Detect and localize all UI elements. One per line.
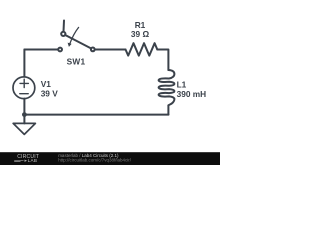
switch SW1 lever — [65, 35, 91, 48]
wire stub above switch (open throw) — [63, 21, 66, 32]
wire junction to ground — [23, 115, 25, 124]
switch SW1 left terminal — [58, 48, 62, 52]
wire top horizontal to switch — [24, 49, 58, 51]
voltage source V1 minus sign — [20, 93, 28, 95]
svg-text:SW1: SW1 — [67, 56, 86, 66]
inductor L1 coil — [159, 70, 175, 105]
ground symbol — [13, 123, 35, 134]
switch SW1 right terminal — [91, 48, 95, 52]
switch SW1 — [58, 21, 95, 52]
wire inductor to bottom — [167, 105, 169, 114]
voltage source V1 circle — [13, 77, 35, 99]
voltage source V1 plus sign — [20, 79, 28, 87]
svg-text:39 Ω: 39 Ω — [131, 29, 150, 39]
footer bar — [0, 152, 220, 165]
wire left rail top (V1 top to corner) — [23, 50, 25, 78]
switch SW1 action arrow — [70, 27, 79, 43]
wire resistor to right corner — [157, 50, 168, 71]
footer CircuitLab logo — [14, 154, 39, 163]
node junction dot — [22, 112, 27, 117]
svg-text:LAB: LAB — [28, 158, 38, 163]
resistor R1 — [126, 43, 158, 55]
svg-text:http://circuitlab.com/c/7vq38f: http://circuitlab.com/c/7vq38f/lab4cir/ — [58, 157, 132, 162]
wire switch to resistor — [95, 49, 126, 51]
switch SW1 top throw terminal — [61, 32, 65, 36]
wire bottom horizontal — [24, 114, 168, 116]
svg-text:390 mH: 390 mH — [177, 89, 207, 99]
svg-text:39 V: 39 V — [41, 88, 59, 98]
wire V1 bottom to junction — [23, 99, 25, 115]
